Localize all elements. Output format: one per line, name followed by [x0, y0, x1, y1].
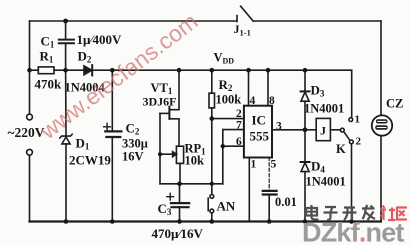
- diode D2: [84, 65, 92, 75]
- svg-text:J: J: [320, 124, 326, 138]
- capacitor C1: [59, 40, 74, 44]
- resistor R2: [209, 93, 215, 108]
- wire node to D2: [66, 69, 84, 71]
- svg-text:C3: C3: [158, 201, 172, 217]
- svg-text:555: 555: [250, 129, 270, 144]
- svg-text:10k: 10k: [185, 154, 205, 168]
- svg-text:2: 2: [236, 108, 242, 120]
- wire C1 top lead: [65, 21, 67, 39]
- svg-text:D3: D3: [311, 83, 325, 99]
- svg-text:2: 2: [356, 136, 362, 148]
- svg-text:5: 5: [271, 159, 277, 171]
- char 开: [343, 208, 357, 221]
- plus sign C2: [104, 123, 111, 130]
- svg-text:D1: D1: [76, 136, 90, 152]
- svg-text:J1-1: J1-1: [234, 22, 251, 38]
- terminal circles 220V: [27, 114, 33, 155]
- svg-text:8: 8: [269, 95, 275, 107]
- watermark DZKF logo: [302, 205, 407, 245]
- svg-text:2CW19: 2CW19: [69, 153, 111, 168]
- svg-text:1: 1: [355, 114, 361, 126]
- socket CZ: [372, 115, 392, 135]
- relay contact J1-1: [237, 6, 253, 21]
- capacitor C3: [171, 184, 189, 222]
- wire pin 3: [272, 129, 305, 131]
- ground rail: [30, 220, 382, 222]
- wire pin 4 lead: [248, 70, 250, 106]
- wire CZ to ground rail: [380, 136, 382, 222]
- diode D3: [301, 70, 310, 130]
- svg-text:DZkf.net: DZkf.net: [302, 218, 404, 245]
- svg-text:R2: R2: [219, 77, 233, 93]
- wire left vertical upper: [29, 21, 31, 114]
- svg-text:0.01: 0.01: [275, 195, 297, 209]
- wire gate vertical: [159, 113, 161, 183]
- wire pin 1 lead: [248, 158, 250, 222]
- char 子: [324, 207, 338, 220]
- wire 0.01 bottom lead: [268, 195, 270, 222]
- capacitor C2: [105, 131, 121, 137]
- svg-text:D2: D2: [78, 49, 92, 65]
- wire R1 right lead: [54, 69, 66, 71]
- svg-text:3: 3: [276, 121, 282, 133]
- svg-text:7: 7: [236, 120, 242, 132]
- wire top rail right: [253, 20, 381, 22]
- svg-text:C2: C2: [126, 121, 140, 137]
- wire timing node horizontal: [160, 183, 223, 185]
- wire pin7/6 vertical: [222, 130, 224, 184]
- wire pin 5 lead dashed: [268, 158, 270, 191]
- char 电: [306, 205, 319, 220]
- relay coil J: [305, 118, 340, 140]
- wire trigger vertical to AN: [211, 119, 213, 195]
- svg-text:3DJ6F: 3DJ6F: [143, 95, 177, 109]
- wire C2 top lead: [111, 70, 113, 131]
- switch K: [340, 118, 353, 144]
- potentiometer RP1: [176, 146, 183, 163]
- wire left vertical lower: [29, 155, 31, 221]
- wire pin 7: [223, 129, 244, 131]
- wire pin 2: [212, 118, 244, 120]
- svg-text:4: 4: [250, 95, 256, 107]
- wire RP1 bottom lead: [179, 163, 181, 183]
- wire VDD rail: [92, 69, 352, 71]
- watermark elecfans main: [34, 8, 202, 145]
- wire C2 bottom lead: [111, 137, 113, 222]
- char 发: [362, 205, 375, 220]
- wire R2 top lead: [211, 70, 213, 93]
- svg-text:C1: C1: [41, 34, 55, 50]
- svg-text:D4: D4: [311, 159, 325, 175]
- svg-text:1: 1: [251, 159, 257, 171]
- wire top rail left: [30, 20, 237, 22]
- svg-text:IC: IC: [252, 113, 266, 128]
- wire pin 6: [223, 145, 244, 147]
- wire D1 leads: [65, 70, 67, 221]
- wiper arm RP1: [160, 152, 177, 157]
- diode D4: [301, 130, 310, 222]
- char 社 red: [381, 206, 396, 221]
- transistor VT1: [160, 70, 179, 146]
- svg-text:330μ: 330μ: [122, 137, 148, 151]
- zener D1: [60, 134, 72, 144]
- wire AN bottom lead: [211, 213, 213, 222]
- svg-text:1N4001: 1N4001: [306, 175, 346, 189]
- wire K contact2 to ground: [351, 144, 353, 222]
- svg-text:6: 6: [236, 136, 242, 148]
- svg-text:1N4001: 1N4001: [304, 102, 344, 116]
- svg-text:470k: 470k: [35, 77, 63, 92]
- wire R1 left lead: [30, 69, 39, 71]
- wire R2 bottom to pin2 node: [211, 108, 213, 119]
- wire C1 bottom lead: [65, 43, 67, 70]
- svg-text:470μ∕16V: 470μ∕16V: [152, 226, 204, 241]
- plus sign C3: [167, 193, 174, 200]
- svg-text:VDD: VDD: [214, 51, 235, 66]
- resistor R1: [38, 67, 54, 74]
- pushbutton AN: [208, 195, 214, 213]
- svg-text:K: K: [336, 142, 346, 156]
- svg-text:AN: AN: [217, 199, 236, 214]
- svg-text:R1: R1: [40, 49, 54, 65]
- svg-text:CZ: CZ: [386, 97, 403, 111]
- svg-text:1μ∕400V: 1μ∕400V: [77, 32, 123, 47]
- wire pin 8 lead: [267, 70, 269, 106]
- svg-text:100k: 100k: [216, 93, 242, 107]
- svg-text:16V: 16V: [122, 150, 144, 164]
- op-amp U1 555 IC box: [244, 106, 272, 158]
- wire drop to K contact 1: [351, 70, 353, 118]
- char 区 red: [397, 208, 407, 220]
- capacitor 0.01: [263, 191, 277, 195]
- wire right drop to CZ: [380, 21, 382, 115]
